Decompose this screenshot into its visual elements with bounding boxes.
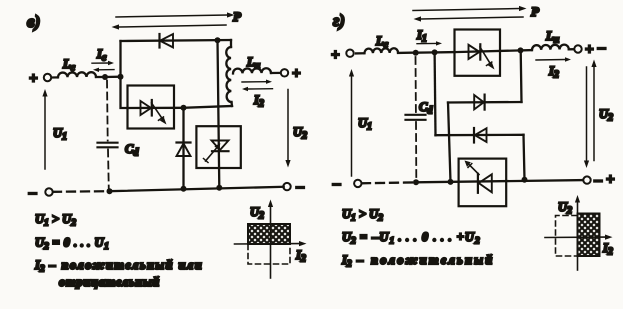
node bottom rail at Cd (g): [413, 179, 419, 185]
wire riser up to top rail: [119, 41, 121, 77]
svg-text:I2: I2: [253, 93, 264, 110]
current arrow I2 right (g): [536, 59, 565, 62]
diode VD2 (pointing up): [177, 141, 191, 143]
svg-text:P: P: [531, 4, 540, 19]
graph (v): crosshatched operating region: [248, 224, 290, 244]
node bottom rail at row2 rail (g): [448, 179, 454, 185]
wire Lc to node M1: [96, 76, 105, 78]
wire M1 to M2: [105, 76, 121, 79]
node M1 (Cd tap): [102, 74, 108, 80]
inductor Ln horizontal winding tap: [233, 68, 271, 73]
wire middle to Ln coil bottom: [184, 106, 233, 108]
svg-text:U2: U2: [293, 125, 307, 142]
wire Lc to node M1 (g): [398, 51, 416, 54]
power flow arrow (to the left, circuit g): [421, 17, 523, 19]
graph (g): vertical axis U2: [577, 203, 579, 271]
svg-text:отрицательный: отрицательный: [59, 275, 160, 289]
node bottom rail at right rail: [216, 185, 222, 191]
wire row2 right corner up to N3: [520, 50, 523, 102]
svg-text:P: P: [233, 9, 242, 24]
node middle wire (VD2 tap): [181, 105, 187, 111]
svg-text:–: –: [28, 185, 37, 201]
wire bottom rail dashed section (g): [362, 181, 414, 184]
svg-text:U1: U1: [358, 116, 372, 133]
node bottom rail at VD2: [181, 186, 187, 192]
wire top rail: [121, 40, 232, 41]
svg-text:+: +: [292, 66, 301, 82]
diode VD2 vertical branch wire: [182, 108, 184, 189]
svg-text:+: +: [29, 71, 38, 87]
svg-text:+: +: [606, 172, 615, 188]
thyristor symbol inside B4 (pointing left): [477, 174, 479, 193]
wire through box B3: [455, 50, 521, 52]
svg-text:I1: I1: [416, 28, 427, 45]
control arrow of B1: [152, 103, 163, 119]
node bottom rail at Cd: [107, 188, 113, 194]
svg-text:U1 > U2: U1 > U2: [35, 212, 76, 229]
capacitor Cd dashed lead top (g): [415, 57, 417, 113]
diode symbol inside B1 (pointing right): [141, 101, 152, 115]
wire M2 to box B3: [435, 51, 455, 54]
wire bottom rail solid: [110, 187, 284, 191]
capacitor Cd dashed lead bottom (g): [415, 122, 417, 179]
inductor Ln vertical winding (circuit v): [230, 40, 232, 47]
current arrow I2 left: [248, 88, 273, 90]
svg-text:в): в): [27, 12, 40, 31]
svg-text:Iс: Iс: [96, 47, 107, 64]
svg-text:I2: I2: [548, 64, 559, 81]
voltage arrow U1 up (g): [351, 77, 353, 177]
inductor Ln (circuit g): [521, 49, 532, 52]
voltage arrow U2 down (g): [586, 67, 588, 161]
capacitor Cd plates: [98, 142, 118, 144]
terminal: output -+ (circuit g): [583, 176, 590, 183]
current arrow Ic right: [92, 62, 108, 64]
wire dash after input terminal (g): [356, 52, 363, 54]
graph (v): vertical axis U2: [270, 207, 272, 278]
controlled valve box B1 (thyristor cell): [128, 86, 175, 129]
svg-text:I2: I2: [295, 248, 306, 265]
controlled valve box B4 (thyristor cell, g bottom): [459, 159, 507, 207]
svg-text:+: +: [585, 42, 594, 58]
svg-text:Lн: Lн: [545, 29, 560, 46]
svg-text:+: +: [331, 48, 340, 64]
diode symbol inside B3 (pointing right): [469, 45, 480, 59]
inductor Lc (circuit g): [364, 48, 398, 53]
svg-text:–: –: [597, 40, 606, 56]
capacitor Cd plates (g): [406, 114, 426, 116]
wire row3 right corner down to bottom rail: [524, 135, 525, 180]
controlled valve box B3 (thyristor cell, g top): [455, 30, 501, 76]
wire rail from M2 down to row3 (g): [433, 52, 436, 135]
svg-text:I2 – положительный или: I2 – положительный или: [34, 258, 203, 275]
terminal: output +- (circuit g): [574, 45, 581, 52]
graph (g): crosshatched operating region: [578, 214, 600, 257]
voltage arrow U2 (down): [287, 90, 289, 161]
node bottom rail at row3 rail (g): [522, 177, 528, 183]
wire through box B1: [128, 107, 184, 109]
graph (v): horizontal axis I2: [235, 243, 300, 245]
wire riser down from M2 into box B1: [121, 77, 128, 108]
svg-text:I2 – положительный: I2 – положительный: [341, 253, 495, 270]
power flow arrow P (to the right, circuit g): [413, 9, 519, 11]
wire right rail (top node to bottom rail through B2): [218, 40, 220, 188]
svg-text:U1 > U2: U1 > U2: [342, 207, 383, 224]
svg-text:–: –: [594, 173, 603, 189]
wire dash after input terminal: [53, 76, 58, 78]
control arrow of B3: [480, 47, 491, 64]
svg-text:U2: U2: [250, 205, 264, 222]
node N3 (top right, g): [518, 47, 524, 53]
control arrow of B2: [206, 148, 218, 162]
diode VD1 on top rail (pointing left): [158, 34, 160, 48]
node M1 (Cd tap, g): [413, 50, 419, 56]
svg-text:U2: U2: [599, 107, 613, 124]
svg-text:U2: U2: [558, 200, 572, 217]
voltage arrow U1 (up, circuit v): [44, 97, 46, 170]
thyristor symbol inside B2 (pointing down): [212, 141, 229, 151]
power flow arrow P (to the right): [116, 15, 227, 17]
node on top rail (right): [215, 37, 221, 43]
svg-text:U1: U1: [53, 126, 67, 143]
svg-text:U2 = –U1 . . . 0 . . . +U2: U2 = –U1 . . . 0 . . . +U2: [342, 230, 480, 247]
svg-text:U2 = 0 . . . U1: U2 = 0 . . . U1: [35, 236, 109, 253]
capacitor Cd dashed lead top: [106, 81, 109, 141]
capacitor Cd dashed lead bottom: [107, 150, 110, 191]
controlled valve box B2 (thyristor cell): [196, 126, 240, 168]
power flow arrow (to the left): [119, 25, 226, 27]
current arrow Ic left: [99, 69, 114, 71]
inductor Lc (circuit v): [58, 72, 96, 77]
graph (g): horizontal axis I2: [545, 236, 605, 238]
wire bottom rail dashed section: [53, 190, 109, 193]
terminal: output - (circuit v): [283, 183, 290, 190]
diode VD3 on row3 (pointing left): [473, 128, 475, 143]
node M2 (riser tap): [118, 74, 124, 80]
current arrow I1 right: [417, 42, 436, 44]
wire row2 horizontal (g): [448, 101, 522, 104]
wire row3 horizontal (g): [436, 134, 524, 137]
wire bottom rail solid (g): [416, 180, 584, 182]
control arrow of B4: [469, 165, 479, 175]
current arrow I2 right: [242, 81, 266, 83]
diode VD2 on row2 (pointing right): [474, 95, 484, 109]
graph (g): dashed mirror region: [556, 216, 578, 257]
node M2 (bridge rail tap, g): [432, 49, 438, 55]
svg-text:I2: I2: [602, 241, 613, 258]
wire row2 left rail down to bottom rail (g): [448, 103, 451, 182]
svg-text:г): г): [333, 11, 345, 30]
svg-text:–: –: [296, 179, 305, 195]
svg-text:Cd: Cd: [125, 142, 139, 159]
wire M1 to M2 (g): [416, 51, 435, 54]
terminal: output + (circuit v): [281, 69, 288, 76]
svg-text:–: –: [332, 176, 341, 192]
svg-text:Lс: Lс: [62, 57, 76, 74]
voltage arrow U2 up (g): [593, 67, 595, 161]
graph (v): dashed mirror region: [248, 245, 290, 265]
